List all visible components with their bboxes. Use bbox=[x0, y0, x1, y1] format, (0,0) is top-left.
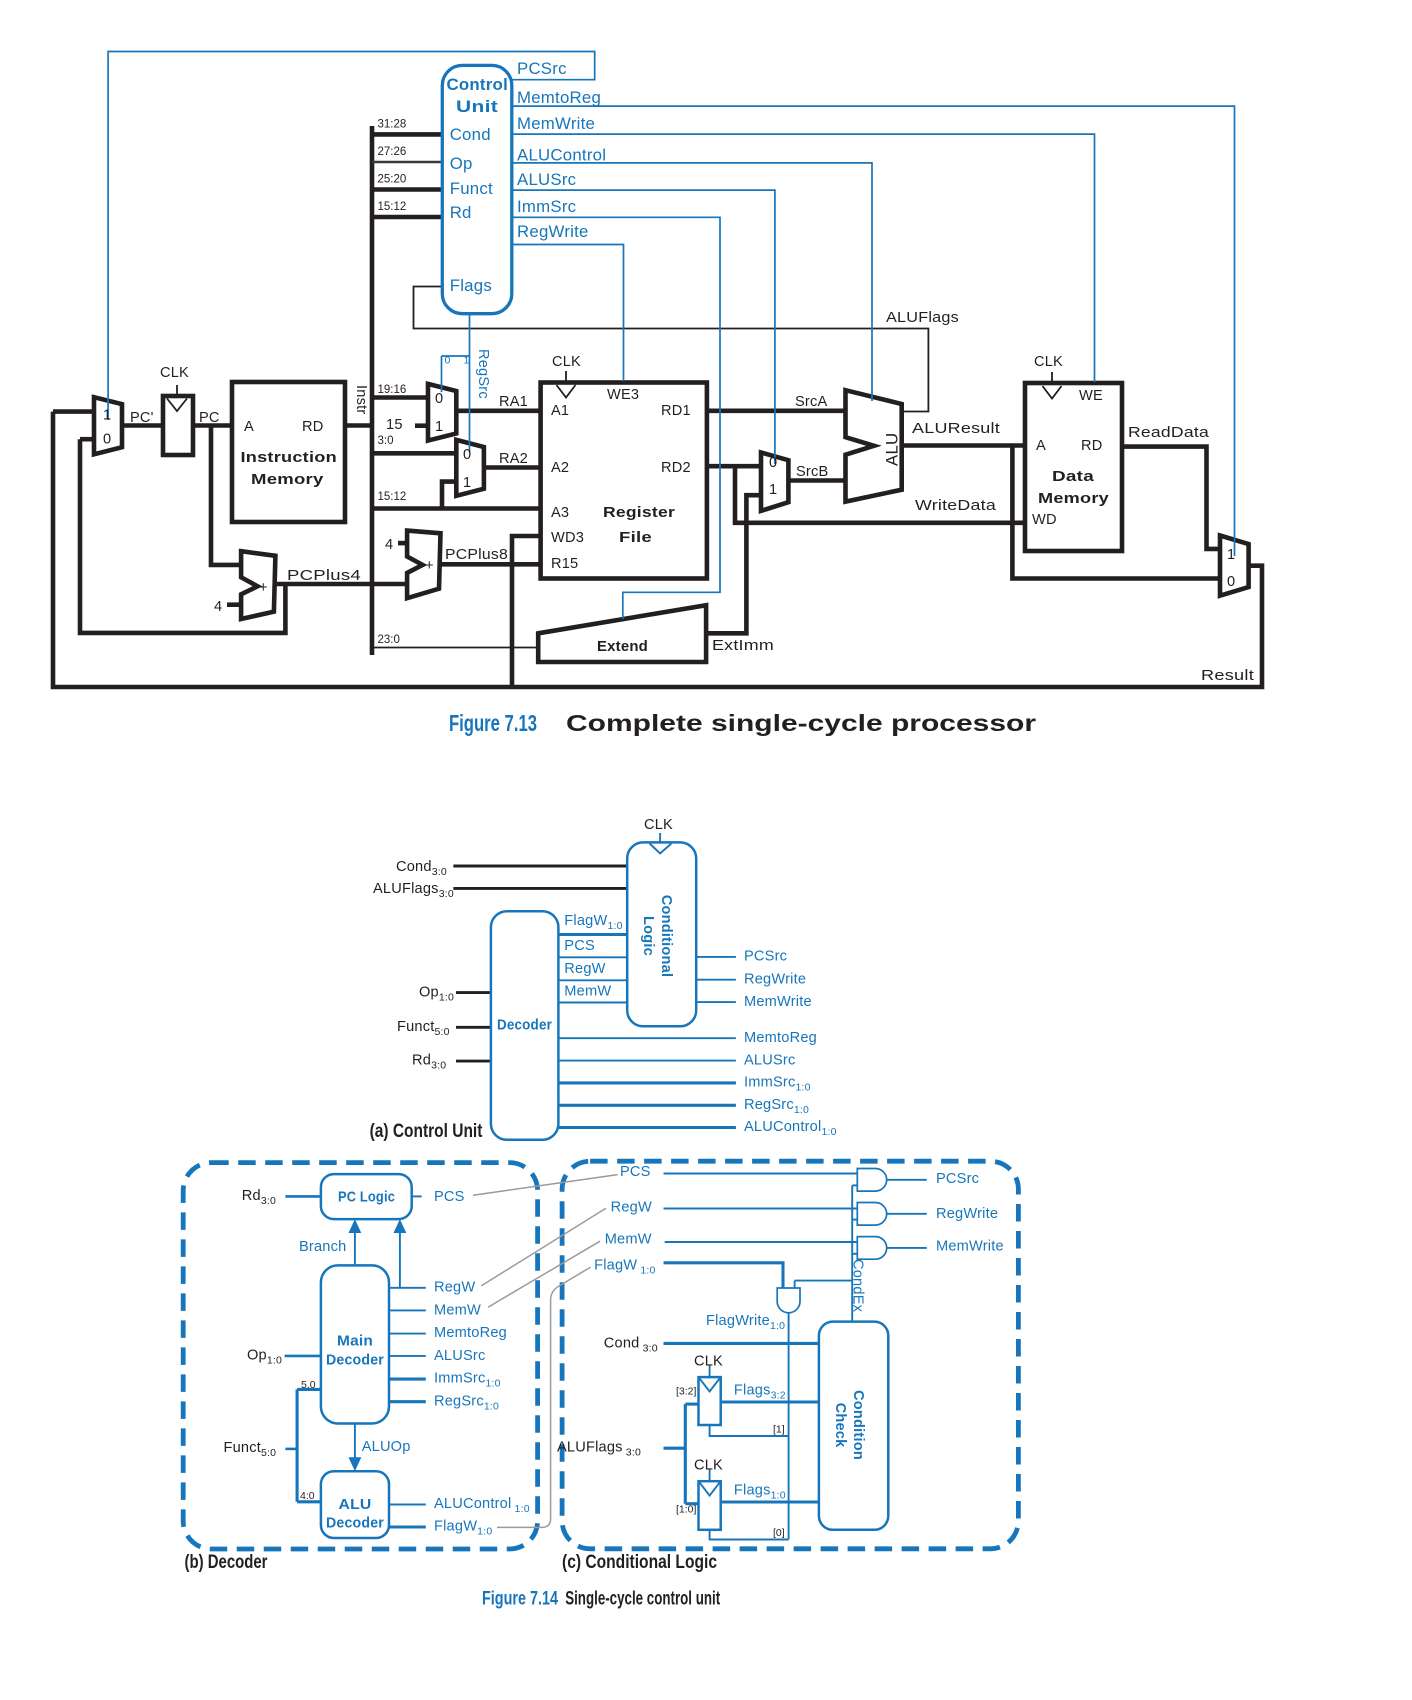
svg-text:Branch: Branch bbox=[299, 1239, 346, 1255]
svg-text:PCSrc: PCSrc bbox=[517, 59, 567, 78]
svg-text:RegW: RegW bbox=[434, 1279, 475, 1295]
svg-text:15:12: 15:12 bbox=[378, 491, 407, 503]
svg-text:PCSrc: PCSrc bbox=[744, 949, 787, 965]
svg-text:Flags: Flags bbox=[450, 276, 492, 295]
svg-text:MemtoReg: MemtoReg bbox=[434, 1325, 507, 1341]
svg-text:Figure 7.14: Figure 7.14 bbox=[482, 1589, 558, 1610]
svg-text:Memory: Memory bbox=[251, 472, 324, 488]
svg-text:CLK: CLK bbox=[644, 817, 673, 833]
svg-text:ALUControl: ALUControl bbox=[517, 145, 606, 164]
svg-text:Register: Register bbox=[603, 505, 675, 521]
svg-text:Figure 7.13: Figure 7.13 bbox=[449, 710, 537, 736]
svg-text:RD1: RD1 bbox=[661, 403, 691, 419]
svg-text:0: 0 bbox=[1227, 574, 1235, 590]
svg-text:MemW: MemW bbox=[434, 1303, 481, 1319]
svg-text:0: 0 bbox=[769, 455, 777, 471]
svg-text:WE3: WE3 bbox=[607, 387, 639, 403]
svg-text:RegWrite: RegWrite bbox=[744, 971, 806, 987]
svg-text:A2: A2 bbox=[551, 460, 569, 476]
svg-text:Control: Control bbox=[447, 75, 509, 94]
svg-text:PCS: PCS bbox=[620, 1164, 651, 1180]
svg-text:A3: A3 bbox=[551, 505, 569, 521]
svg-text:RegWrite: RegWrite bbox=[517, 222, 589, 241]
svg-text:WD: WD bbox=[1032, 512, 1057, 528]
svg-text:MemtoReg: MemtoReg bbox=[744, 1030, 817, 1046]
svg-text:RA1: RA1 bbox=[499, 394, 528, 410]
svg-text:ReadData: ReadData bbox=[1128, 425, 1210, 441]
svg-text:23:0: 23:0 bbox=[378, 634, 400, 646]
svg-text:1: 1 bbox=[463, 475, 471, 491]
svg-text:ALUFlags: ALUFlags bbox=[886, 310, 959, 326]
svg-text:A1: A1 bbox=[551, 403, 569, 419]
svg-text:1: 1 bbox=[769, 482, 777, 498]
svg-text:RD2: RD2 bbox=[661, 460, 691, 476]
svg-text:RegSrc: RegSrc bbox=[475, 349, 491, 399]
svg-text:ALUSrc: ALUSrc bbox=[434, 1348, 485, 1364]
svg-text:ALUResult: ALUResult bbox=[912, 421, 1000, 437]
svg-text:R15: R15 bbox=[551, 556, 578, 572]
svg-text:Unit: Unit bbox=[456, 97, 498, 116]
svg-text:MemtoReg: MemtoReg bbox=[517, 88, 601, 107]
svg-text:[3:2]: [3:2] bbox=[676, 1385, 697, 1397]
svg-text:[0]: [0] bbox=[773, 1527, 785, 1539]
svg-text:ALUOp: ALUOp bbox=[362, 1439, 411, 1455]
svg-text:27:26: 27:26 bbox=[378, 146, 407, 158]
svg-text:CLK: CLK bbox=[1034, 354, 1063, 370]
svg-text:CLK: CLK bbox=[552, 354, 581, 370]
svg-text:WD3: WD3 bbox=[551, 530, 584, 546]
svg-text:Decoder: Decoder bbox=[326, 1516, 384, 1532]
svg-text:PCPlus4: PCPlus4 bbox=[287, 568, 361, 584]
svg-text:31:28: 31:28 bbox=[378, 119, 407, 131]
svg-text:0: 0 bbox=[463, 447, 471, 463]
svg-text:15:12: 15:12 bbox=[378, 201, 407, 213]
svg-text:5,0: 5,0 bbox=[301, 1379, 316, 1391]
svg-text:SrcB: SrcB bbox=[796, 464, 828, 480]
svg-text:Check: Check bbox=[832, 1403, 848, 1448]
svg-text:4: 4 bbox=[214, 599, 222, 615]
svg-text:Cond: Cond bbox=[450, 125, 491, 144]
svg-text:Decoder: Decoder bbox=[497, 1017, 552, 1033]
svg-text:Single-cycle control unit: Single-cycle control unit bbox=[565, 1589, 720, 1610]
svg-text:ALU: ALU bbox=[339, 1497, 372, 1513]
svg-text:+: + bbox=[425, 558, 434, 574]
svg-text:File: File bbox=[619, 530, 652, 546]
svg-text:19:16: 19:16 bbox=[378, 384, 407, 396]
svg-text:PC Logic: PC Logic bbox=[338, 1190, 395, 1206]
svg-text:(a) Control Unit: (a) Control Unit bbox=[370, 1121, 483, 1142]
svg-text:CLK: CLK bbox=[694, 1458, 723, 1474]
svg-text:Result: Result bbox=[1201, 668, 1254, 684]
svg-text:Funct: Funct bbox=[450, 179, 493, 198]
svg-text:Op: Op bbox=[450, 154, 473, 173]
svg-text:(b) Decoder: (b) Decoder bbox=[185, 1552, 268, 1573]
svg-text:PCS: PCS bbox=[434, 1189, 465, 1205]
svg-text:ImmSrc: ImmSrc bbox=[517, 197, 576, 216]
svg-text:RA2: RA2 bbox=[499, 451, 528, 467]
svg-text:Complete single-cycle processo: Complete single-cycle processor bbox=[566, 710, 1036, 736]
svg-text:4: 4 bbox=[385, 537, 393, 553]
svg-text:MemW: MemW bbox=[564, 984, 611, 1000]
svg-text:MemW: MemW bbox=[605, 1232, 652, 1248]
svg-text:(c) Conditional Logic: (c) Conditional Logic bbox=[562, 1552, 717, 1573]
svg-text:1: 1 bbox=[1227, 547, 1235, 563]
svg-text:Instruction: Instruction bbox=[241, 450, 337, 466]
svg-text:A: A bbox=[244, 419, 254, 435]
svg-text:1: 1 bbox=[103, 408, 111, 424]
svg-text:RD: RD bbox=[302, 419, 323, 435]
svg-text:ALUSrc: ALUSrc bbox=[517, 170, 576, 189]
svg-text:PCS: PCS bbox=[564, 938, 595, 954]
svg-text:PCSrc: PCSrc bbox=[936, 1171, 979, 1187]
svg-text:+: + bbox=[259, 580, 268, 596]
svg-text:Instr: Instr bbox=[353, 385, 369, 414]
svg-text:Rd: Rd bbox=[450, 203, 472, 222]
svg-text:15: 15 bbox=[386, 417, 403, 433]
svg-text:3:0: 3:0 bbox=[378, 435, 394, 447]
svg-text:Memory: Memory bbox=[1038, 491, 1110, 507]
svg-text:Extend: Extend bbox=[597, 639, 648, 655]
svg-text:MemWrite: MemWrite bbox=[517, 114, 595, 133]
svg-text:0: 0 bbox=[103, 432, 111, 448]
svg-text:CondEx: CondEx bbox=[850, 1259, 866, 1313]
svg-text:Conditional: Conditional bbox=[658, 895, 674, 977]
svg-text:Data: Data bbox=[1052, 469, 1095, 485]
svg-text:Condition: Condition bbox=[850, 1390, 866, 1460]
svg-text:1: 1 bbox=[464, 355, 470, 367]
svg-text:PCPlus8: PCPlus8 bbox=[445, 547, 508, 563]
svg-text:WriteData: WriteData bbox=[915, 498, 997, 514]
svg-text:MemWrite: MemWrite bbox=[744, 994, 812, 1010]
svg-text:RD: RD bbox=[1081, 438, 1102, 454]
svg-text:CLK: CLK bbox=[694, 1354, 723, 1370]
svg-text:ALU: ALU bbox=[883, 433, 902, 466]
svg-text:PC: PC bbox=[199, 410, 220, 426]
svg-text:MemWrite: MemWrite bbox=[936, 1238, 1004, 1254]
svg-text:Decoder: Decoder bbox=[326, 1352, 384, 1368]
svg-text:0: 0 bbox=[435, 391, 443, 407]
svg-text:WE: WE bbox=[1079, 388, 1103, 404]
svg-text:RegW: RegW bbox=[611, 1199, 652, 1215]
svg-text:RegW: RegW bbox=[564, 961, 605, 977]
svg-text:25:20: 25:20 bbox=[378, 174, 407, 186]
svg-text:0: 0 bbox=[445, 355, 451, 367]
svg-text:ExtImm: ExtImm bbox=[712, 638, 774, 654]
svg-text:1: 1 bbox=[435, 419, 443, 435]
svg-text:[1:0]: [1:0] bbox=[676, 1503, 697, 1515]
svg-text:SrcA: SrcA bbox=[795, 394, 827, 410]
svg-text:4:0: 4:0 bbox=[300, 1490, 315, 1502]
svg-text:RegWrite: RegWrite bbox=[936, 1206, 998, 1222]
svg-text:ALUSrc: ALUSrc bbox=[744, 1052, 795, 1068]
svg-text:Logic: Logic bbox=[640, 916, 656, 956]
svg-text:Main: Main bbox=[337, 1333, 373, 1349]
svg-text:PC': PC' bbox=[130, 410, 154, 426]
svg-text:[1]: [1] bbox=[773, 1424, 785, 1436]
svg-text:CLK: CLK bbox=[160, 365, 189, 381]
svg-text:A: A bbox=[1036, 438, 1046, 454]
